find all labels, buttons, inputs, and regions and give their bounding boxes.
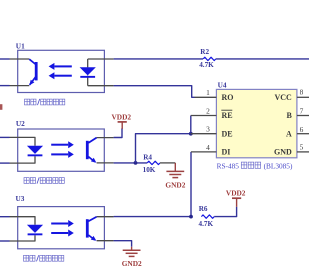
resistor R2 (199, 48, 216, 69)
svg-text:U4: U4 (218, 81, 227, 90)
wire U2 anode left (0, 136, 10, 138)
wire R6 to VDD2 (214, 207, 236, 217)
U3 caption 低速/高速光隔 (24, 255, 64, 261)
svg-text:2: 2 (206, 106, 210, 115)
svg-text:DI: DI (222, 148, 231, 157)
svg-text:A: A (286, 129, 292, 138)
U4 pin 3 DE (191, 125, 233, 139)
wire R2 to right edge (216, 58, 309, 60)
optocoupler U3 (16, 194, 105, 249)
U4 pin 7 B (286, 107, 309, 121)
wire U3 collector to node (114, 216, 191, 218)
wire U1 emitter left (0, 85, 10, 87)
wire VDD to R2 (114, 58, 203, 60)
junction node DI-R6 (189, 215, 193, 219)
wire U3 anode left (0, 216, 10, 218)
junction node RE-DE (189, 132, 193, 136)
power VDD2 (U2) (112, 112, 132, 128)
U3 LED (27, 225, 43, 236)
resistor R4 (143, 153, 160, 174)
optocoupler U2 (16, 119, 104, 171)
U2 LED (27, 146, 43, 157)
junction node U2-R4 (134, 161, 138, 165)
U3 LED pins (10, 217, 36, 241)
svg-text:VCC: VCC (274, 93, 292, 102)
svg-text:1: 1 (206, 88, 210, 97)
svg-text:GND: GND (274, 148, 292, 157)
U1 LED (80, 59, 114, 86)
wire U3 emitter to GND2 (114, 241, 132, 247)
svg-text:U3: U3 (16, 194, 25, 203)
U2 phototransistor pins (97, 138, 114, 163)
svg-text:10K: 10K (143, 166, 156, 174)
U2 light arrows (pointing right) (51, 141, 74, 158)
svg-text:DE: DE (222, 129, 233, 138)
svg-text:6: 6 (300, 125, 304, 134)
wire U2 collector to VDD2 (114, 128, 122, 137)
wire node to DE/RE (136, 134, 191, 163)
wire U1 emitter to U4 pin 1 (114, 86, 195, 98)
svg-text:R6: R6 (199, 205, 208, 213)
U1 phototransistor pins (10, 59, 30, 86)
U4 pin 8 VCC (274, 87, 309, 102)
svg-text:RE: RE (222, 111, 233, 120)
svg-text:3: 3 (206, 125, 210, 134)
U2 caption 低速/高速光隔 (24, 177, 64, 183)
clipped net label fragment (0, 104, 2, 110)
svg-text:RO: RO (222, 93, 234, 102)
svg-text:VDD2: VDD2 (112, 112, 132, 121)
wire U3 cathode left (0, 240, 10, 242)
wire U2 emitter to node (114, 162, 148, 164)
svg-text:GND2: GND2 (122, 259, 142, 268)
wire node to U4 pin 4 DI (190, 152, 192, 217)
U3 phototransistor (86, 217, 97, 241)
U4 pin 1 RO (195, 88, 234, 102)
svg-text:B: B (286, 111, 292, 120)
ground GND2 (R4) (165, 171, 185, 189)
svg-text:4: 4 (206, 143, 210, 152)
svg-text:7: 7 (300, 107, 304, 116)
U4 pin 4 DI (191, 143, 230, 157)
optocoupler U1 (16, 41, 105, 92)
U2 LED pins (10, 137, 36, 163)
U3 light arrows (pointing right) (51, 220, 74, 237)
RS-485 transceiver U4 (216, 81, 297, 158)
power VDD2 (R6) (226, 189, 246, 207)
U1 phototransistor (29, 59, 37, 85)
U4 pin 2 /RE (191, 106, 233, 120)
wire U2 cathode left (0, 162, 10, 164)
U1 caption 低速/高速光隔 (25, 99, 65, 105)
svg-text:GND2: GND2 (165, 180, 185, 189)
U4 pin 5 GND (274, 142, 309, 156)
U1 light arrows (pointing left) (49, 63, 72, 79)
U4 caption RS-485收发器 (BL3085) (217, 162, 293, 171)
svg-text:RS-485: RS-485 (217, 162, 240, 171)
svg-text:R4: R4 (143, 153, 152, 161)
svg-text:(BL3085): (BL3085) (264, 162, 293, 171)
svg-text:4.7K: 4.7K (199, 220, 214, 228)
wire RE tie (190, 116, 192, 134)
ground GND2 (U3) (122, 247, 142, 268)
svg-text:8: 8 (300, 87, 304, 96)
wire R4 to GND2 (160, 163, 175, 171)
svg-text:R2: R2 (200, 48, 209, 56)
U3 phototransistor pins (97, 217, 114, 241)
U2 phototransistor (86, 138, 97, 163)
svg-text:VDD2: VDD2 (226, 189, 246, 198)
resistor R6 (199, 205, 215, 228)
svg-text:5: 5 (300, 142, 304, 151)
wire U1 collector left (0, 58, 10, 60)
U4 pin 6 A (286, 125, 309, 139)
svg-text:U2: U2 (16, 119, 25, 128)
svg-text:4.7K: 4.7K (199, 61, 214, 69)
svg-text:U1: U1 (16, 41, 25, 50)
